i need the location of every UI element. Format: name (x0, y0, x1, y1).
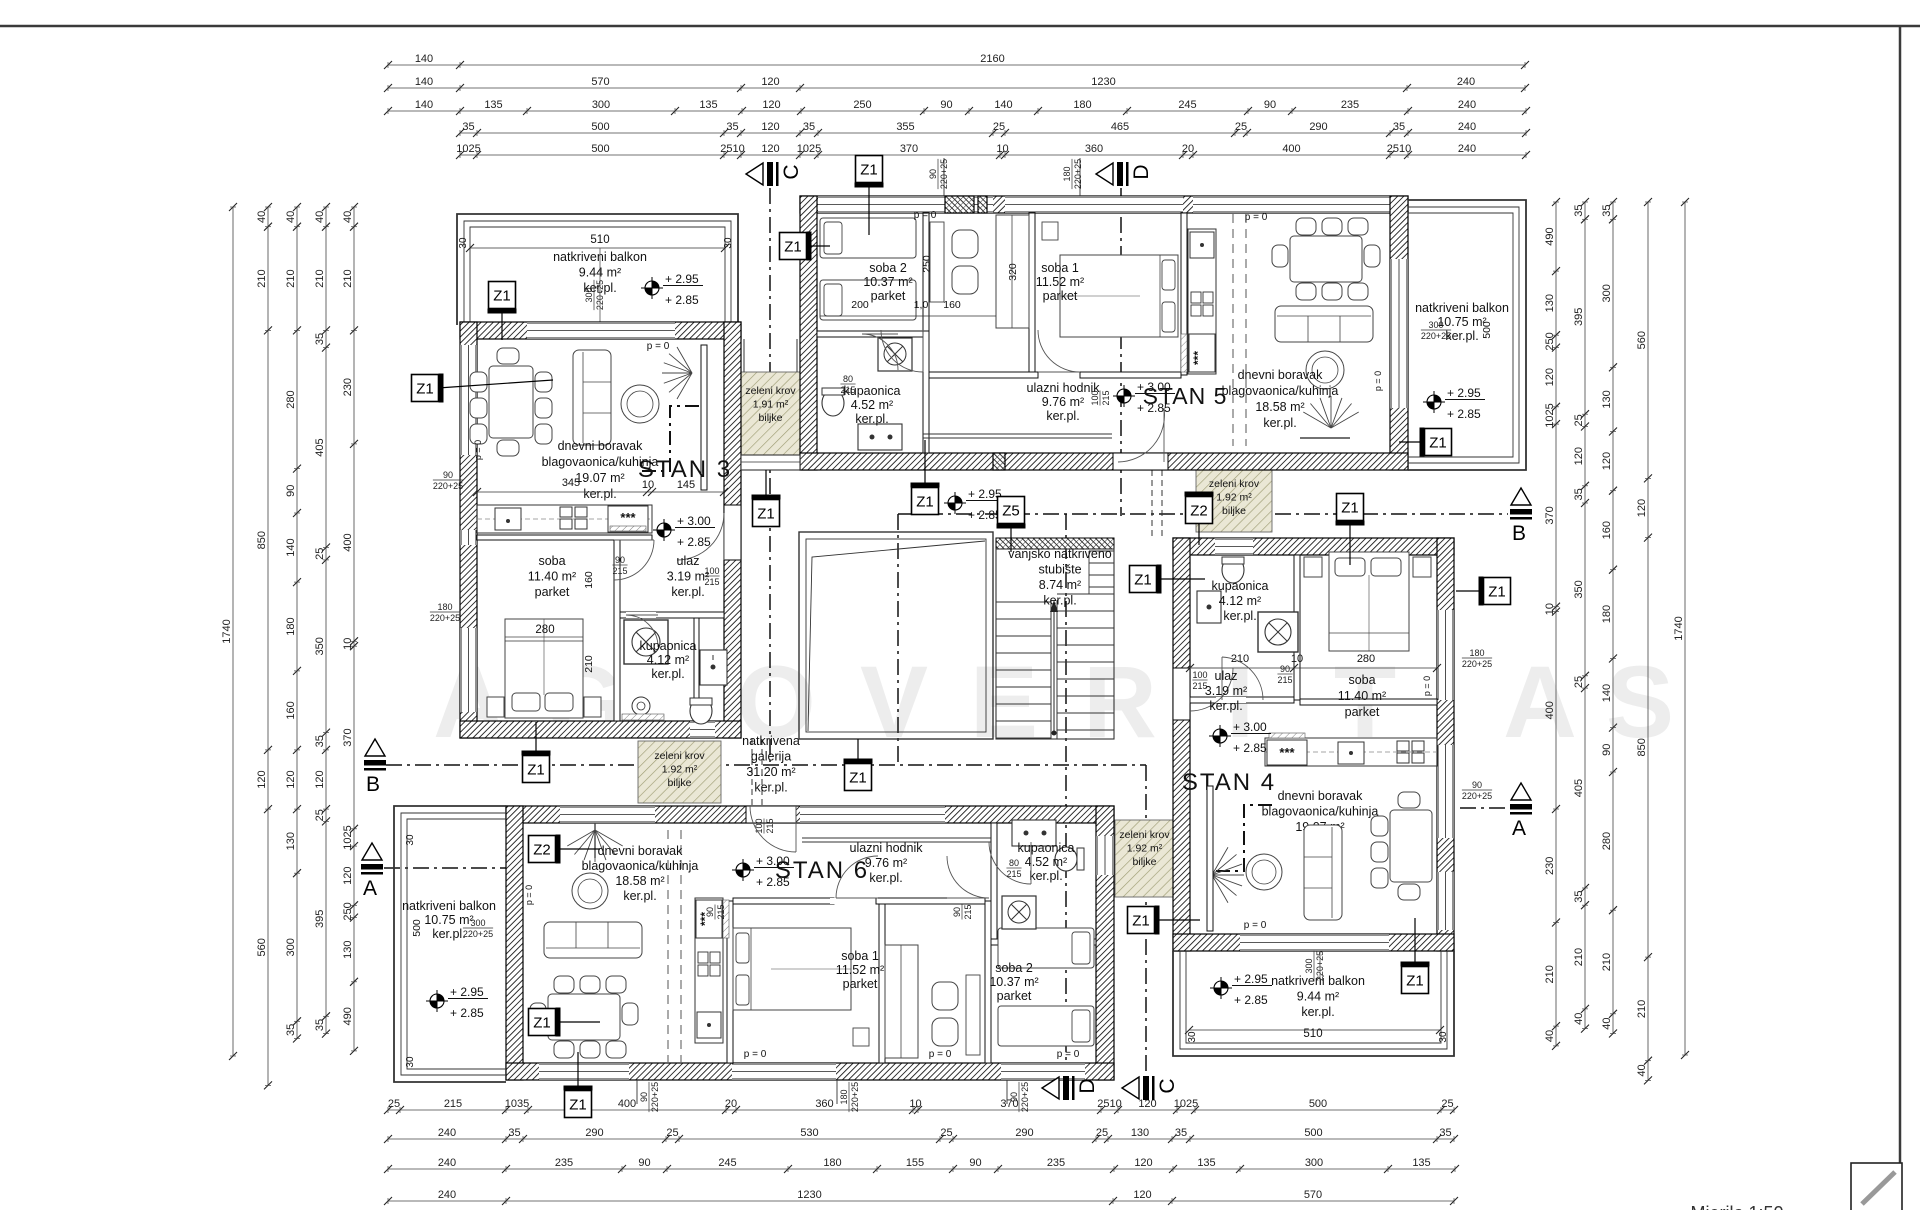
connector wall band (741, 455, 800, 470)
stairs arrow (1053, 606, 1055, 733)
level marker above gallery (948, 496, 962, 510)
svg-text:180: 180 (1469, 648, 1484, 658)
svg-text:10.75 m²: 10.75 m² (424, 913, 473, 927)
svg-text:200: 200 (851, 299, 869, 311)
STAN 4 shower (1258, 612, 1298, 652)
STAN 4 top wall (1173, 538, 1454, 555)
svg-text:Z1: Z1 (849, 770, 867, 787)
STAN 5 soba2 door (881, 330, 923, 372)
svg-text:300: 300 (1428, 320, 1443, 330)
svg-text:***: *** (1191, 351, 1205, 365)
svg-text:120: 120 (761, 121, 779, 133)
svg-text:30: 30 (1438, 1031, 1449, 1043)
STAN 4 fractions (1462, 648, 1492, 669)
STAN 3 door kupaonica (626, 615, 658, 647)
svg-text:1035: 1035 (505, 1098, 529, 1110)
svg-text:25: 25 (940, 1127, 952, 1139)
svg-text:90: 90 (1472, 780, 1482, 790)
STAN 5 top wall (800, 196, 1408, 213)
STAN 6 hall wall (733, 898, 834, 904)
STAN 6 top wall (506, 806, 1114, 823)
svg-text:215: 215 (963, 904, 973, 919)
STAN 3 window fraction left 90 (433, 470, 463, 491)
bottom window axis line 3 (1006, 1080, 1008, 1104)
svg-text:350: 350 (1573, 580, 1585, 598)
STAN 6 soba2 beds (998, 928, 1094, 968)
svg-text:1230: 1230 (797, 1189, 821, 1201)
svg-text:90: 90 (615, 555, 625, 565)
svg-text:100: 100 (704, 566, 719, 576)
Z1 box left of STAN 4 bottom (1155, 919, 1200, 921)
svg-text:ker.pl.: ker.pl. (651, 667, 684, 681)
svg-text:p = 0: p = 0 (473, 440, 483, 460)
STAN 3 door fraction 90/215 (612, 555, 627, 576)
svg-text:Z1: Z1 (757, 506, 775, 523)
STAN 5 interior wall soba1 right (1181, 213, 1187, 375)
STAN 3 interior wall kitchen/soba (477, 535, 652, 540)
svg-text:Z1: Z1 (416, 381, 434, 398)
Z1 box above STAN 4 bed (1349, 521, 1351, 565)
svg-text:395: 395 (1573, 308, 1585, 326)
svg-text:570: 570 (591, 76, 609, 88)
svg-text:215: 215 (444, 1098, 462, 1110)
svg-text:p = 0: p = 0 (914, 210, 937, 221)
svg-text:10: 10 (909, 1098, 921, 1110)
svg-text:Z1: Z1 (533, 1015, 551, 1032)
svg-text:120: 120 (1133, 1189, 1151, 1201)
svg-text:210: 210 (314, 269, 326, 287)
STAN 6 kitchen stove (698, 952, 708, 963)
svg-text:90: 90 (1280, 664, 1290, 674)
svg-text:35: 35 (285, 1024, 297, 1036)
stairs top landing (996, 538, 1114, 549)
svg-text:natkriveni balkon: natkriveni balkon (402, 899, 496, 913)
STAN 6 dining table (548, 994, 620, 1040)
svg-text:ker.pl.: ker.pl. (1043, 594, 1076, 608)
svg-text:120: 120 (761, 143, 779, 155)
stairs steps (996, 551, 1114, 738)
svg-text:soba 2: soba 2 (995, 961, 1033, 975)
Z1 box STAN 3 balcony (501, 309, 503, 340)
axis A left horizontal (384, 867, 512, 869)
svg-text:1740: 1740 (221, 619, 233, 643)
svg-text:STAN 4: STAN 4 (1182, 769, 1276, 796)
svg-text:+ 2.85: + 2.85 (665, 293, 699, 307)
Z5 box above stairs (1010, 524, 1012, 552)
STAN 3 shower (624, 620, 668, 664)
svg-text:220+25: 220+25 (939, 159, 949, 189)
STAN 3 coffee table (621, 385, 659, 423)
svg-text:40: 40 (314, 211, 326, 223)
STAN 6 entry door (750, 806, 796, 852)
svg-text:140: 140 (994, 99, 1012, 111)
svg-text:+ 2.85: + 2.85 (1137, 401, 1171, 415)
svg-text:500: 500 (411, 919, 423, 937)
green roof patch 1 (right of STAN 3) (741, 372, 800, 455)
top dimension row 2 (384, 76, 1529, 92)
Z1 box below patch1 (765, 470, 767, 499)
svg-text:90: 90 (1009, 1092, 1019, 1102)
svg-text:soba 1: soba 1 (841, 949, 879, 963)
STAN 4 nightstands (1304, 557, 1322, 577)
svg-text:240: 240 (438, 1157, 456, 1169)
STAN 3 kitchen fridge (608, 506, 648, 532)
svg-text:ker.pl.: ker.pl. (754, 781, 787, 795)
svg-text:220+25: 220+25 (650, 1082, 660, 1112)
svg-text:parket: parket (871, 289, 906, 303)
STAN 6 washer (1002, 896, 1036, 929)
svg-text:10: 10 (342, 638, 354, 650)
STAN 3 kupaonica top wall (620, 612, 724, 618)
svg-text:B: B (1512, 522, 1526, 545)
svg-text:blagovaonica/kuhinja: blagovaonica/kuhinja (1222, 384, 1339, 398)
svg-text:100: 100 (754, 818, 764, 833)
gallery square (799, 532, 993, 739)
svg-text:220+25: 220+25 (430, 613, 460, 623)
svg-text:215: 215 (1192, 681, 1207, 691)
STAN 6 balcony frame (394, 806, 506, 1082)
svg-text:p = 0: p = 0 (1422, 676, 1432, 696)
svg-text:120: 120 (1636, 499, 1648, 517)
STAN 3 interior wall soba/kupaonica (614, 540, 620, 721)
axis D vertical bottom (1065, 514, 1067, 1076)
svg-text:Z2: Z2 (533, 842, 551, 859)
svg-text:370: 370 (342, 728, 354, 746)
svg-text:300: 300 (1305, 1157, 1323, 1169)
svg-text:220+25: 220+25 (1073, 159, 1083, 189)
STAN 6 coffee table (572, 873, 608, 909)
svg-text:soba: soba (1348, 673, 1375, 687)
svg-text:850: 850 (1636, 738, 1648, 756)
svg-text:500: 500 (591, 143, 609, 155)
svg-text:25: 25 (1441, 1098, 1453, 1110)
STAN 3 bottom wall (460, 721, 741, 738)
svg-text:35: 35 (1601, 205, 1613, 217)
svg-text:35: 35 (726, 121, 738, 133)
svg-text:30: 30 (1187, 1031, 1198, 1043)
svg-text:ker.pl.: ker.pl. (869, 871, 902, 885)
svg-text:215: 215 (704, 577, 719, 587)
left dimension chain 4 (314, 203, 330, 1038)
STAN 4 bed (1329, 552, 1409, 651)
svg-text:biljke: biljke (668, 777, 692, 789)
svg-text:220+25: 220+25 (1462, 659, 1492, 669)
Z1 box STAN 5 right balcony (1399, 441, 1424, 443)
svg-text:215: 215 (840, 385, 855, 395)
STAN 6 kitchen sink (697, 1012, 721, 1038)
svg-text:ulaz: ulaz (677, 554, 700, 568)
svg-text:parket: parket (535, 585, 570, 599)
left dimension chain 5 (342, 203, 358, 1055)
svg-text:ker.pl.: ker.pl. (1029, 869, 1062, 883)
svg-text:135: 135 (1412, 1157, 1430, 1169)
STAN 6 kitchen fridge (696, 900, 722, 938)
STAN 4 balcony level marker (1214, 981, 1228, 995)
STAN 5 level marker (1117, 389, 1131, 403)
svg-text:35: 35 (462, 121, 474, 133)
svg-text:25: 25 (1573, 676, 1585, 688)
svg-text:560: 560 (256, 938, 268, 956)
svg-text:20: 20 (1182, 143, 1194, 155)
svg-text:490: 490 (1544, 227, 1556, 245)
svg-text:120: 120 (342, 867, 354, 885)
svg-text:biljke: biljke (1133, 856, 1157, 868)
page border top (0, 25, 1920, 28)
svg-text:215: 215 (716, 904, 726, 919)
svg-text:zeleni krov: zeleni krov (745, 385, 796, 397)
svg-text:parket: parket (1043, 289, 1078, 303)
svg-text:25: 25 (1573, 414, 1585, 426)
section marker C bottom (1122, 1077, 1139, 1099)
STAN 5 toilet (822, 390, 844, 416)
svg-text:240: 240 (438, 1127, 456, 1139)
svg-text:kupaonica: kupaonica (640, 639, 697, 653)
svg-text:160: 160 (285, 701, 297, 719)
svg-text:90: 90 (639, 1092, 649, 1102)
svg-text:220+25: 220+25 (1462, 791, 1492, 801)
patch1 side walls (743, 339, 745, 372)
STAN 3 kitchen sink (495, 508, 521, 530)
svg-text:ulazni hodnik: ulazni hodnik (850, 841, 924, 855)
svg-text:25: 25 (666, 1127, 678, 1139)
green roof patch 3 (right of STAN 6) (1115, 820, 1174, 897)
svg-text:ker.pl.: ker.pl. (432, 927, 465, 941)
STAN 6 desk chairs (966, 975, 980, 1055)
gallery fold line (808, 541, 985, 731)
svg-text:250: 250 (342, 902, 354, 920)
STAN 3 kupaonica partition (694, 618, 699, 721)
svg-text:80: 80 (843, 374, 853, 384)
svg-text:290: 290 (585, 1127, 603, 1139)
STAN 4 toilet (1222, 557, 1244, 583)
svg-text:biljke: biljke (759, 412, 783, 424)
STAN 5 dashed partition lines (1232, 214, 1234, 446)
svg-text:30: 30 (458, 237, 469, 249)
svg-text:10: 10 (1291, 653, 1303, 665)
svg-text:zeleni krov: zeleni krov (654, 750, 705, 762)
svg-text:210: 210 (1601, 953, 1613, 971)
svg-text:180: 180 (285, 617, 297, 635)
STAN 5 sofa (1275, 306, 1373, 342)
STAN 3 balcony frame (457, 214, 738, 325)
svg-text:Z5: Z5 (1002, 503, 1020, 520)
svg-text:40: 40 (1573, 1013, 1585, 1025)
svg-text:90: 90 (952, 907, 962, 917)
svg-text:560: 560 (1636, 331, 1648, 349)
svg-text:parket: parket (843, 977, 878, 991)
svg-text:Z1: Z1 (1341, 500, 1359, 517)
STAN 4 kitchen fridge (1267, 740, 1307, 765)
svg-text:25: 25 (1096, 1127, 1108, 1139)
svg-text:Z1: Z1 (916, 494, 934, 511)
STAN 6 floor lamp (567, 830, 622, 862)
svg-text:p = 0: p = 0 (1373, 371, 1383, 391)
svg-text:465: 465 (1111, 121, 1129, 133)
svg-text:blagovaonica/kuhinja: blagovaonica/kuhinja (582, 859, 699, 873)
svg-text:STAN 3: STAN 3 (638, 456, 732, 483)
svg-text:405: 405 (314, 438, 326, 456)
left dimension chain 3 (285, 203, 301, 1043)
svg-text:90: 90 (638, 1157, 650, 1169)
svg-text:100: 100 (1090, 390, 1100, 405)
svg-text:+ 2.85: + 2.85 (450, 1006, 484, 1020)
dashed lines near patch2 (751, 739, 753, 806)
svg-text:215: 215 (1101, 390, 1111, 405)
STAN 4 floor lamp (1212, 847, 1244, 902)
svg-text:180: 180 (1601, 605, 1613, 623)
STAN 5 kitchen sink (1190, 232, 1214, 258)
svg-text:500: 500 (1309, 1098, 1327, 1110)
STAN 4 interior wall soba bottom (1300, 699, 1437, 705)
Z1 box left of STAN 3 (438, 380, 553, 388)
STAN 6 interior wall soba1 left (727, 901, 733, 1063)
section marker D bottom (1042, 1077, 1059, 1099)
axis C vertical bottom (1145, 765, 1147, 1076)
svg-text:Z1: Z1 (860, 162, 878, 179)
svg-text:Z1: Z1 (1488, 584, 1506, 601)
svg-text:530: 530 (800, 1127, 818, 1139)
svg-text:500: 500 (1481, 321, 1493, 339)
svg-text:25: 25 (314, 548, 326, 560)
svg-text:+ 3.00: + 3.00 (677, 514, 711, 528)
svg-text:405: 405 (1573, 779, 1585, 797)
svg-text:11.52 m²: 11.52 m² (836, 963, 884, 977)
svg-text:120: 120 (256, 770, 268, 788)
svg-text:210: 210 (1544, 965, 1556, 983)
svg-text:C: C (780, 164, 803, 179)
svg-text:180: 180 (823, 1157, 841, 1169)
svg-text:395: 395 (314, 910, 326, 928)
svg-text:120: 120 (1544, 368, 1556, 386)
STAN 3 sofa (573, 350, 611, 445)
svg-text:120: 120 (1601, 452, 1613, 470)
svg-text:35: 35 (803, 121, 815, 133)
dashed lines near patch4 (1151, 470, 1153, 538)
svg-text:2510: 2510 (1387, 143, 1411, 155)
section marker B left (365, 739, 385, 756)
svg-text:400: 400 (618, 1098, 636, 1110)
svg-text:500: 500 (591, 121, 609, 133)
svg-text:240: 240 (438, 1189, 456, 1201)
svg-text:120: 120 (1134, 1157, 1152, 1169)
axis C vertical top (769, 188, 771, 762)
STAN 3 balcony level marker (645, 281, 659, 295)
svg-text:300: 300 (1304, 958, 1314, 973)
svg-text:3.19 m²: 3.19 m² (667, 570, 709, 584)
svg-text:1740: 1740 (1673, 616, 1685, 640)
svg-text:+ 2.85: + 2.85 (1234, 993, 1268, 1007)
STAN 6 dashed partition lines (667, 830, 669, 1062)
svg-text:soba 2: soba 2 (869, 261, 907, 275)
north arrow box (1851, 1163, 1902, 1210)
svg-text:40: 40 (1636, 1064, 1648, 1076)
svg-text:345: 345 (562, 477, 580, 489)
svg-text:35: 35 (1573, 488, 1585, 500)
STAN 5 kupaonica door (862, 334, 898, 370)
STAN 3 left wall (460, 322, 477, 738)
svg-text:180: 180 (1062, 166, 1072, 181)
svg-text:30: 30 (723, 237, 734, 249)
svg-text:215: 215 (765, 818, 775, 833)
svg-text:220+25: 220+25 (433, 481, 463, 491)
svg-text:850: 850 (256, 531, 268, 549)
svg-text:400: 400 (1282, 143, 1300, 155)
svg-text:kupaonica: kupaonica (1018, 841, 1075, 855)
svg-text:V: V (860, 645, 928, 759)
Z2 box STAN 6 left (556, 848, 600, 850)
svg-text:360: 360 (1085, 143, 1103, 155)
stairs stringer (1050, 600, 1052, 739)
svg-text:210: 210 (583, 655, 595, 673)
svg-text:p = 0: p = 0 (1245, 212, 1268, 223)
svg-text:9.76 m²: 9.76 m² (1042, 395, 1084, 409)
green roof patch 4 (left of STAN 4 top) (1196, 470, 1272, 532)
svg-text:245: 245 (718, 1157, 736, 1169)
STAN 4 washbasin (1197, 591, 1221, 623)
svg-text:40: 40 (1544, 1030, 1556, 1042)
STAN 4 kitchen stove (1397, 741, 1409, 751)
STAN 6 sofa (544, 922, 642, 958)
STAN 5 interior wall soba2/kupaonica (817, 331, 923, 337)
Z1 box STAN 5 left (806, 245, 830, 247)
STAN 6 soba1 bed (733, 928, 851, 1010)
svg-text:180: 180 (839, 1089, 849, 1104)
svg-text:90: 90 (705, 907, 715, 917)
STAN 3 nightstand left (487, 697, 504, 717)
svg-text:130: 130 (1544, 294, 1556, 312)
STAN 5 coffee table (1306, 351, 1344, 389)
svg-text:+ 2.95: + 2.95 (1234, 972, 1268, 986)
svg-text:35: 35 (508, 1127, 520, 1139)
svg-text:2160: 2160 (980, 53, 1004, 65)
STAN 5 balcony frame (1408, 200, 1526, 470)
STAN 3 kitchen counter (477, 505, 652, 533)
svg-text:B: B (366, 773, 380, 796)
STAN 5 kitchen counter (1188, 229, 1216, 374)
svg-text:490: 490 (342, 1007, 354, 1025)
STAN 5 kupaonica washer (878, 338, 912, 371)
svg-text:100: 100 (1192, 670, 1207, 680)
svg-text:80: 80 (1009, 858, 1019, 868)
bottom dimension row 1 (384, 1098, 1458, 1114)
svg-text:235: 235 (555, 1157, 573, 1169)
svg-text:+ 2.85: + 2.85 (1233, 741, 1267, 755)
svg-text:soba: soba (538, 554, 565, 568)
svg-text:510: 510 (590, 234, 609, 246)
svg-text:160: 160 (943, 299, 961, 311)
svg-text:235: 235 (1047, 1157, 1065, 1169)
top dimension row 1 (384, 53, 1529, 69)
Z1 box right of STAN 4 (1456, 590, 1483, 592)
svg-text:35: 35 (1439, 1127, 1451, 1139)
svg-text:280: 280 (285, 390, 297, 408)
svg-text:220+25: 220+25 (1020, 1082, 1030, 1112)
Z1 box above gallery (924, 440, 926, 487)
svg-text:140: 140 (415, 99, 433, 111)
svg-text:ulaz: ulaz (1215, 669, 1238, 683)
STAN 6 fractions (1006, 858, 1021, 879)
STAN 6 closet (885, 945, 918, 1058)
STAN 6 interior wall closet/soba1 (879, 901, 885, 1063)
svg-text:dnevni boravak: dnevni boravak (558, 439, 644, 453)
bottom dimension row 2 (384, 1127, 1458, 1143)
svg-text:8.74 m²: 8.74 m² (1039, 578, 1081, 592)
STAN 4 balcony window fraction (1304, 951, 1325, 981)
STAN 5 fractions (840, 374, 855, 395)
axis A right horizontal (1460, 807, 1508, 809)
right dimension chain 2 (1573, 198, 1589, 1033)
svg-text:135: 135 (1197, 1157, 1215, 1169)
